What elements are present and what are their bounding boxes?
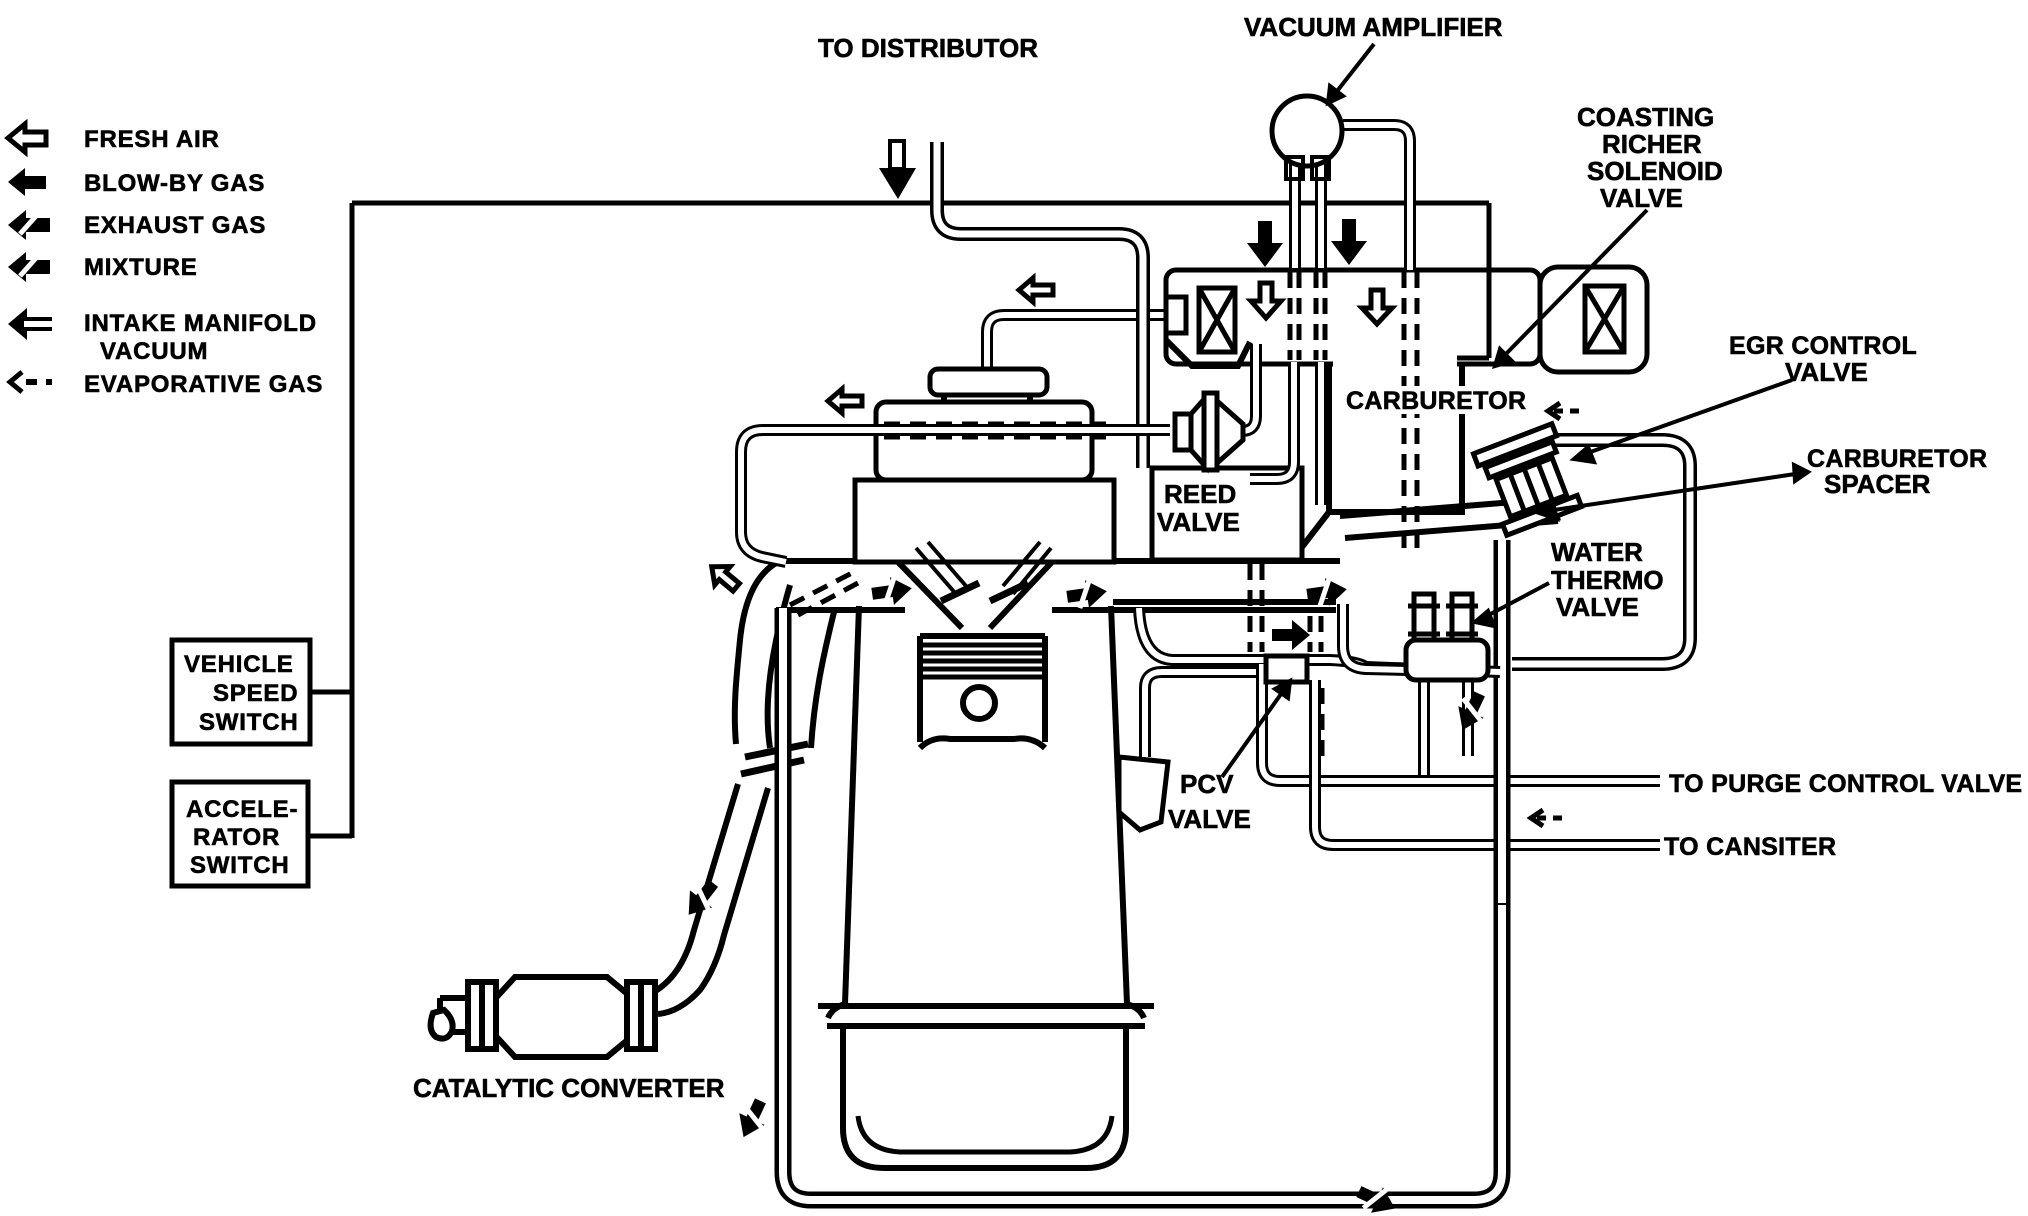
svg-text:FRESH AIR: FRESH AIR: [84, 126, 220, 153]
svg-text:VALVE: VALVE: [1600, 183, 1683, 213]
svg-text:VACUUM AMPLIFIER: VACUUM AMPLIFIER: [1244, 12, 1503, 42]
svg-text:THERMO: THERMO: [1551, 565, 1664, 595]
svg-text:EXHAUST GAS: EXHAUST GAS: [84, 212, 266, 239]
svg-text:INTAKE MANIFOLD: INTAKE MANIFOLD: [84, 310, 317, 337]
svg-text:TO CANSITER: TO CANSITER: [1664, 833, 1836, 861]
svg-text:TO DISTRIBUTOR: TO DISTRIBUTOR: [818, 33, 1038, 63]
svg-text:EVAPORATIVE GAS: EVAPORATIVE GAS: [84, 371, 323, 398]
svg-text:TO PURGE CONTROL VALVE: TO PURGE CONTROL VALVE: [1669, 770, 2022, 798]
svg-text:EGR CONTROL: EGR CONTROL: [1729, 332, 1917, 360]
svg-text:VACUUM: VACUUM: [100, 338, 208, 365]
svg-text:VALVE: VALVE: [1785, 357, 1868, 387]
svg-text:RICHER: RICHER: [1602, 129, 1702, 159]
svg-text:SWITCH: SWITCH: [190, 852, 289, 879]
svg-text:COASTING: COASTING: [1577, 102, 1714, 132]
svg-text:VALVE: VALVE: [1556, 592, 1639, 622]
svg-text:ACCELE-: ACCELE-: [186, 796, 298, 823]
svg-text:REED: REED: [1164, 479, 1236, 509]
svg-text:SPACER: SPACER: [1824, 469, 1931, 499]
svg-text:SOLENOID: SOLENOID: [1587, 156, 1723, 186]
svg-text:CARBURETOR: CARBURETOR: [1346, 387, 1526, 415]
svg-text:MIXTURE: MIXTURE: [84, 254, 198, 281]
svg-text:SWITCH: SWITCH: [199, 709, 298, 736]
svg-text:CATALYTIC CONVERTER: CATALYTIC CONVERTER: [413, 1073, 725, 1103]
svg-text:VEHICLE: VEHICLE: [184, 651, 294, 678]
svg-text:SPEED: SPEED: [213, 680, 298, 707]
svg-text:WATER: WATER: [1551, 537, 1643, 567]
svg-text:VALVE: VALVE: [1157, 507, 1240, 537]
svg-text:BLOW-BY GAS: BLOW-BY GAS: [84, 170, 265, 197]
svg-text:VALVE: VALVE: [1168, 804, 1251, 834]
svg-text:RATOR: RATOR: [193, 824, 280, 851]
